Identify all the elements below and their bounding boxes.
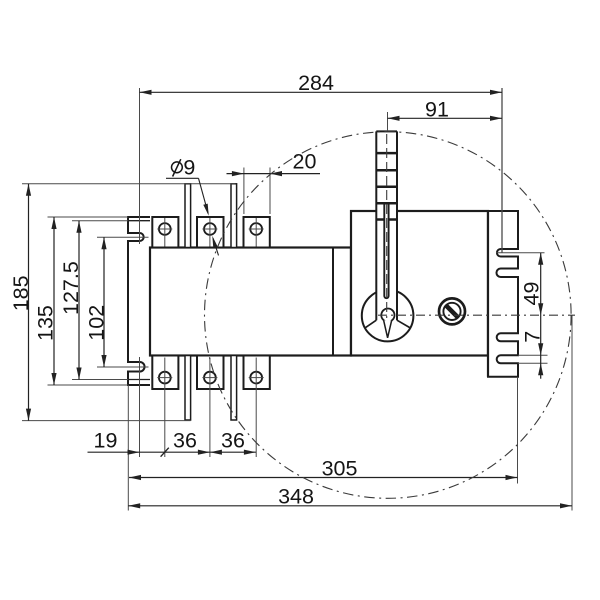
svg-text:19: 19 (94, 429, 118, 453)
svg-text:305: 305 (322, 457, 358, 481)
svg-text:102: 102 (85, 305, 109, 341)
svg-text:20: 20 (293, 150, 317, 174)
svg-text:9: 9 (183, 156, 195, 180)
svg-text:135: 135 (34, 305, 58, 341)
svg-text:284: 284 (298, 71, 334, 95)
svg-text:49: 49 (520, 282, 544, 306)
svg-text:91: 91 (425, 98, 449, 122)
svg-text:36: 36 (221, 429, 245, 453)
svg-text:127.5: 127.5 (59, 261, 83, 315)
svg-text:36: 36 (173, 429, 197, 453)
svg-text:185: 185 (9, 275, 33, 311)
svg-text:7: 7 (521, 331, 545, 343)
svg-text:348: 348 (278, 485, 314, 509)
